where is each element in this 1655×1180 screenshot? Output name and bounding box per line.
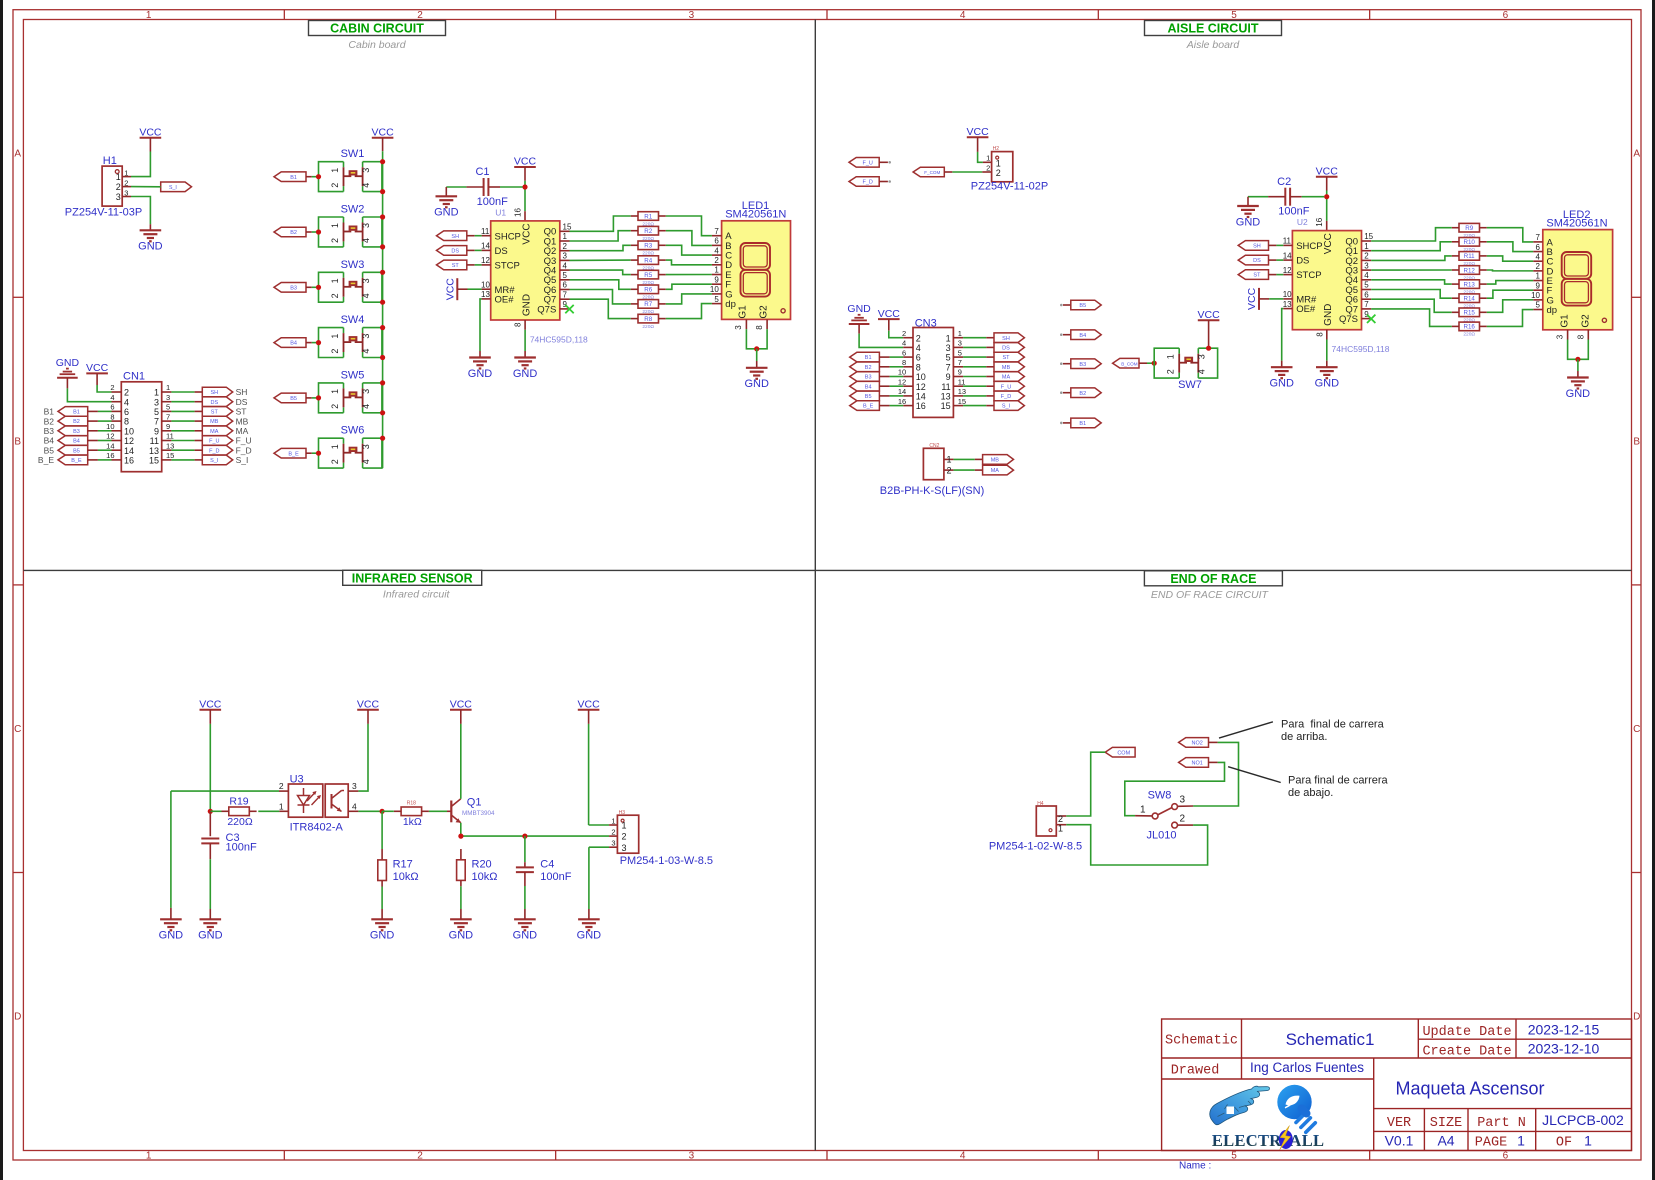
svg-text:13: 13 xyxy=(149,446,159,456)
svg-text:9: 9 xyxy=(1364,310,1369,319)
svg-text:VCC: VCC xyxy=(1246,287,1258,310)
svg-text:MB: MB xyxy=(991,458,1000,464)
svg-text:1: 1 xyxy=(330,334,340,339)
svg-text:DS: DS xyxy=(495,246,508,257)
svg-text:B5: B5 xyxy=(290,396,297,402)
svg-text:Q7S: Q7S xyxy=(1339,314,1358,325)
svg-text:Cabin board: Cabin board xyxy=(348,39,406,51)
svg-text:B3: B3 xyxy=(1079,362,1086,368)
svg-text:4: 4 xyxy=(563,261,568,270)
svg-text:11: 11 xyxy=(166,432,174,441)
svg-text:B_E: B_E xyxy=(288,451,299,457)
svg-text:4: 4 xyxy=(361,183,371,188)
svg-text:GND: GND xyxy=(1323,304,1334,326)
svg-text:ST: ST xyxy=(452,263,460,269)
svg-text:1: 1 xyxy=(146,1151,152,1162)
svg-text:U3: U3 xyxy=(290,773,304,785)
svg-text:ST: ST xyxy=(1253,273,1261,279)
svg-text:3: 3 xyxy=(1364,261,1369,270)
svg-text:G1: G1 xyxy=(1559,314,1570,328)
svg-text:VCC: VCC xyxy=(1316,165,1339,177)
svg-text:1: 1 xyxy=(946,333,951,343)
svg-text:C: C xyxy=(1633,724,1640,735)
svg-text:VCC: VCC xyxy=(199,698,222,710)
svg-text:Name :: Name : xyxy=(1179,1161,1211,1172)
svg-text:6: 6 xyxy=(1503,1151,1509,1162)
svg-text:2: 2 xyxy=(1166,369,1176,374)
svg-text:Part N: Part N xyxy=(1477,1116,1526,1131)
svg-text:3: 3 xyxy=(166,393,170,402)
svg-text:B3: B3 xyxy=(44,426,55,436)
svg-text:100nF: 100nF xyxy=(540,871,571,883)
svg-text:R10: R10 xyxy=(1464,239,1476,246)
svg-text:C1: C1 xyxy=(475,166,489,178)
svg-text:15: 15 xyxy=(941,401,951,411)
svg-text:2: 2 xyxy=(947,465,952,475)
svg-text:OE#: OE# xyxy=(495,295,515,306)
svg-text:MB: MB xyxy=(1002,365,1011,371)
svg-text:CN2: CN2 xyxy=(929,443,939,449)
svg-text:PZ254V-11-03P: PZ254V-11-03P xyxy=(65,207,142,219)
svg-text:1kΩ: 1kΩ xyxy=(403,816,422,828)
svg-text:2: 2 xyxy=(124,388,129,398)
svg-text:12: 12 xyxy=(481,256,490,265)
svg-text:END OF RACE: END OF RACE xyxy=(1170,572,1256,586)
svg-text:1: 1 xyxy=(986,154,990,163)
svg-text:OE#: OE# xyxy=(1296,304,1316,315)
svg-text:7: 7 xyxy=(1536,233,1541,242)
svg-text:1: 1 xyxy=(146,10,152,21)
svg-text:DS: DS xyxy=(1002,346,1010,352)
svg-text:VCC: VCC xyxy=(444,278,456,301)
svg-text:2: 2 xyxy=(279,781,284,791)
svg-text:DS: DS xyxy=(210,400,218,406)
svg-text:ST: ST xyxy=(236,407,247,417)
svg-text:12: 12 xyxy=(898,377,906,386)
svg-text:8: 8 xyxy=(902,358,906,367)
svg-text:3: 3 xyxy=(1180,795,1186,806)
svg-text:4: 4 xyxy=(960,10,966,21)
svg-text:GND: GND xyxy=(1315,378,1340,390)
svg-text:B1: B1 xyxy=(44,407,55,417)
svg-text:B_E: B_E xyxy=(38,455,54,465)
svg-text:D: D xyxy=(1633,1012,1640,1023)
svg-text:5: 5 xyxy=(946,353,951,363)
svg-text:PM254-1-02-W-8.5: PM254-1-02-W-8.5 xyxy=(989,841,1082,853)
svg-text:13: 13 xyxy=(958,387,966,396)
svg-text:CABIN CIRCUIT: CABIN CIRCUIT xyxy=(330,22,424,36)
svg-text:H3: H3 xyxy=(619,810,626,816)
svg-text:6: 6 xyxy=(714,237,719,246)
svg-text:R20: R20 xyxy=(472,859,492,871)
svg-text:ST: ST xyxy=(1002,355,1010,361)
svg-text:SW1: SW1 xyxy=(341,148,365,160)
svg-text:INFRARED SENSOR: INFRARED SENSOR xyxy=(352,571,473,585)
svg-text:8: 8 xyxy=(1577,334,1586,339)
svg-text:B1: B1 xyxy=(290,175,297,181)
svg-text:14: 14 xyxy=(124,446,134,456)
svg-text:16: 16 xyxy=(898,397,906,406)
svg-text:NO1: NO1 xyxy=(1191,761,1202,767)
svg-text:GND: GND xyxy=(138,241,163,253)
svg-text:H1: H1 xyxy=(103,155,117,167)
svg-text:2023-12-10: 2023-12-10 xyxy=(1528,1041,1600,1057)
svg-text:R12: R12 xyxy=(1464,267,1476,274)
svg-text:6: 6 xyxy=(563,281,568,290)
svg-text:U2: U2 xyxy=(1297,217,1308,227)
svg-text:B5: B5 xyxy=(1079,303,1086,309)
svg-text:B4: B4 xyxy=(290,341,297,347)
svg-text:B5: B5 xyxy=(44,445,55,455)
svg-text:JLCPCB-002: JLCPCB-002 xyxy=(1542,1112,1624,1128)
svg-text:SHCP: SHCP xyxy=(1296,241,1322,252)
svg-text:1: 1 xyxy=(330,444,340,449)
svg-text:3: 3 xyxy=(124,188,128,197)
svg-text:SIZE: SIZE xyxy=(1430,1116,1462,1131)
svg-text:15: 15 xyxy=(958,397,966,406)
svg-text:A: A xyxy=(1633,149,1640,160)
svg-text:MB: MB xyxy=(210,419,219,425)
svg-text:1: 1 xyxy=(1058,824,1063,834)
svg-text:4: 4 xyxy=(1364,271,1369,280)
svg-text:1: 1 xyxy=(611,816,615,825)
svg-text:13: 13 xyxy=(941,392,951,402)
svg-text:10kΩ: 10kΩ xyxy=(393,871,419,883)
svg-text:1: 1 xyxy=(714,266,719,275)
svg-text:8: 8 xyxy=(110,412,114,421)
svg-text:SW6: SW6 xyxy=(341,425,365,437)
svg-text:7: 7 xyxy=(563,290,568,299)
svg-text:VCC: VCC xyxy=(139,127,162,139)
svg-text:B4: B4 xyxy=(73,439,80,445)
svg-text:AISLE CIRCUIT: AISLE CIRCUIT xyxy=(1168,22,1259,36)
svg-text:GND: GND xyxy=(1269,378,1294,390)
svg-text:9: 9 xyxy=(958,368,962,377)
svg-text:11: 11 xyxy=(958,377,966,386)
svg-text:14: 14 xyxy=(916,392,926,402)
svg-text:2: 2 xyxy=(330,183,340,188)
svg-text:2: 2 xyxy=(1536,262,1541,271)
svg-text:1: 1 xyxy=(1536,272,1541,281)
svg-text:220Ω: 220Ω xyxy=(1463,332,1475,338)
svg-text:B2: B2 xyxy=(44,416,55,426)
svg-text:13: 13 xyxy=(166,441,174,450)
svg-text:2: 2 xyxy=(330,293,340,298)
svg-text:12: 12 xyxy=(916,382,926,392)
svg-text:12: 12 xyxy=(124,436,134,446)
svg-text:3: 3 xyxy=(611,839,615,848)
svg-text:S_I: S_I xyxy=(1002,404,1011,410)
svg-text:3: 3 xyxy=(689,10,695,21)
svg-text:DS: DS xyxy=(236,397,248,407)
svg-text:9: 9 xyxy=(1536,281,1541,290)
svg-text:2: 2 xyxy=(330,349,340,354)
svg-text:7: 7 xyxy=(958,358,962,367)
svg-text:3: 3 xyxy=(1197,354,1207,359)
svg-text:2: 2 xyxy=(1180,814,1186,825)
svg-text:F_D: F_D xyxy=(236,445,252,455)
svg-text:JL010: JL010 xyxy=(1147,830,1177,842)
svg-text:B_E: B_E xyxy=(71,458,82,464)
svg-text:R19: R19 xyxy=(229,796,248,808)
svg-text:12: 12 xyxy=(106,432,114,441)
svg-text:15: 15 xyxy=(563,223,572,232)
svg-text:VCC: VCC xyxy=(967,126,990,138)
svg-text:G1: G1 xyxy=(738,305,749,319)
svg-text:4: 4 xyxy=(1197,369,1207,374)
svg-text:3: 3 xyxy=(361,334,371,339)
svg-text:1: 1 xyxy=(330,168,340,173)
svg-text:3: 3 xyxy=(689,1151,695,1162)
svg-text:VCC: VCC xyxy=(450,698,473,710)
svg-text:7: 7 xyxy=(154,417,159,427)
svg-text:10: 10 xyxy=(1531,291,1540,300)
svg-text:Update Date: Update Date xyxy=(1422,1025,1511,1040)
svg-text:GND: GND xyxy=(56,357,80,369)
svg-text:MMBT3904: MMBT3904 xyxy=(462,810,495,817)
svg-text:1: 1 xyxy=(1517,1133,1525,1149)
svg-text:D: D xyxy=(14,1012,21,1023)
svg-text:R15: R15 xyxy=(1464,310,1476,317)
svg-text:9: 9 xyxy=(563,300,568,309)
svg-text:3: 3 xyxy=(361,444,371,449)
svg-text:3: 3 xyxy=(154,397,159,407)
svg-text:G2: G2 xyxy=(1580,314,1591,328)
svg-text:3: 3 xyxy=(734,325,743,330)
svg-text:14: 14 xyxy=(481,242,490,251)
svg-text:2: 2 xyxy=(110,383,114,392)
svg-text:SW4: SW4 xyxy=(341,314,365,326)
svg-text:B_E: B_E xyxy=(863,404,874,410)
svg-text:F_D: F_D xyxy=(1001,394,1011,400)
svg-text:DS: DS xyxy=(1253,258,1261,264)
svg-text:7: 7 xyxy=(166,412,170,421)
svg-text:4: 4 xyxy=(714,246,719,255)
svg-text:B3: B3 xyxy=(290,285,297,291)
svg-text:COM: COM xyxy=(1117,750,1130,756)
svg-text:4: 4 xyxy=(361,349,371,354)
svg-text:VCC: VCC xyxy=(372,127,395,139)
svg-text:R8: R8 xyxy=(644,316,652,323)
svg-text:GND: GND xyxy=(577,930,602,942)
svg-text:B3: B3 xyxy=(73,429,80,435)
svg-text:R3: R3 xyxy=(644,243,652,250)
svg-text:11: 11 xyxy=(481,227,490,236)
svg-text:4: 4 xyxy=(361,293,371,298)
svg-text:9: 9 xyxy=(946,372,951,382)
svg-text:STCP: STCP xyxy=(1296,270,1321,281)
svg-text:1: 1 xyxy=(1584,1133,1592,1149)
svg-text:B_COM: B_COM xyxy=(1121,361,1138,366)
svg-text:2: 2 xyxy=(330,404,340,409)
svg-text:8: 8 xyxy=(1315,332,1324,337)
svg-text:4: 4 xyxy=(361,238,371,243)
svg-text:DS: DS xyxy=(1296,256,1309,267)
svg-text:PZ254V-11-02P: PZ254V-11-02P xyxy=(971,181,1048,193)
svg-text:3: 3 xyxy=(352,781,357,791)
svg-text:2: 2 xyxy=(986,163,990,172)
svg-text:3: 3 xyxy=(361,223,371,228)
svg-text:1: 1 xyxy=(996,158,1001,168)
svg-text:STCP: STCP xyxy=(495,261,520,272)
svg-text:1: 1 xyxy=(563,232,568,241)
svg-text:B2: B2 xyxy=(290,230,297,236)
svg-text:GND: GND xyxy=(434,207,459,219)
svg-text:1: 1 xyxy=(330,223,340,228)
svg-text:GND: GND xyxy=(370,930,395,942)
svg-text:SW2: SW2 xyxy=(341,204,365,216)
svg-text:GND: GND xyxy=(1566,388,1591,400)
svg-text:GND: GND xyxy=(1236,216,1261,228)
svg-text:Para final de carrera: Para final de carrera xyxy=(1281,719,1385,731)
svg-text:2: 2 xyxy=(124,178,128,187)
svg-text:5: 5 xyxy=(958,348,962,357)
svg-text:3: 3 xyxy=(116,192,121,202)
svg-text:9: 9 xyxy=(166,422,170,431)
svg-text:10: 10 xyxy=(1283,290,1292,299)
svg-text:R16: R16 xyxy=(1464,324,1476,331)
svg-text:GND: GND xyxy=(468,368,493,380)
svg-text:1: 1 xyxy=(279,801,284,811)
svg-text:OF: OF xyxy=(1556,1136,1572,1151)
svg-text:11: 11 xyxy=(941,382,950,392)
svg-text:4: 4 xyxy=(110,393,114,402)
svg-text:CN1: CN1 xyxy=(123,370,145,382)
svg-text:V0.1: V0.1 xyxy=(1385,1133,1414,1149)
svg-text:1: 1 xyxy=(166,383,170,392)
svg-text:100nF: 100nF xyxy=(226,842,257,854)
svg-text:2: 2 xyxy=(417,10,423,21)
svg-text:8: 8 xyxy=(124,417,129,427)
svg-text:5: 5 xyxy=(1536,301,1541,310)
svg-text:F_COM: F_COM xyxy=(924,170,940,175)
svg-text:4: 4 xyxy=(124,397,129,407)
svg-text:R6: R6 xyxy=(644,287,652,294)
svg-text:R2: R2 xyxy=(644,228,652,235)
svg-text:2: 2 xyxy=(1058,814,1063,824)
svg-text:GND: GND xyxy=(744,378,769,390)
svg-text:74HC595D,118: 74HC595D,118 xyxy=(530,335,588,345)
svg-text:dp: dp xyxy=(725,299,736,310)
svg-text:GND: GND xyxy=(159,930,184,942)
svg-text:6: 6 xyxy=(1364,290,1369,299)
svg-text:SW7: SW7 xyxy=(1178,379,1202,391)
svg-text:B1: B1 xyxy=(73,410,80,416)
svg-text:GND: GND xyxy=(522,294,533,316)
svg-text:Infrared circuit: Infrared circuit xyxy=(383,589,451,601)
svg-text:7: 7 xyxy=(946,362,951,372)
svg-text:220Ω: 220Ω xyxy=(642,324,654,330)
svg-text:Ing Carlos Fuentes: Ing Carlos Fuentes xyxy=(1250,1060,1364,1075)
svg-text:1: 1 xyxy=(1166,354,1176,359)
svg-text:B3: B3 xyxy=(865,375,872,381)
svg-text:2: 2 xyxy=(563,242,568,251)
svg-text:S_I: S_I xyxy=(210,458,219,464)
svg-text:9: 9 xyxy=(154,426,159,436)
svg-text:F_D: F_D xyxy=(863,180,873,186)
svg-text:GND: GND xyxy=(847,303,871,315)
svg-text:1: 1 xyxy=(1140,805,1146,816)
svg-text:11: 11 xyxy=(1283,237,1292,246)
svg-text:SW8: SW8 xyxy=(1148,790,1172,802)
svg-text:G2: G2 xyxy=(759,305,770,319)
svg-text:SW5: SW5 xyxy=(341,369,365,381)
svg-text:VER: VER xyxy=(1387,1116,1411,1131)
svg-text:2: 2 xyxy=(330,459,340,464)
svg-text:6: 6 xyxy=(110,403,114,412)
svg-text:MA: MA xyxy=(236,426,249,436)
svg-text:B2: B2 xyxy=(1079,391,1086,397)
svg-text:14: 14 xyxy=(898,387,906,396)
svg-text:4: 4 xyxy=(902,339,906,348)
svg-text:VCC: VCC xyxy=(878,308,901,320)
svg-text:4: 4 xyxy=(1536,252,1541,261)
svg-text:VCC: VCC xyxy=(1198,309,1221,321)
svg-text:MA: MA xyxy=(210,429,219,435)
svg-text:R14: R14 xyxy=(1464,296,1476,303)
svg-text:SH: SH xyxy=(1253,244,1261,250)
svg-text:Schematic1: Schematic1 xyxy=(1286,1030,1375,1049)
svg-text:5: 5 xyxy=(154,407,159,417)
svg-text:SM420561N: SM420561N xyxy=(1546,217,1607,229)
svg-text:Maqueta Ascensor: Maqueta Ascensor xyxy=(1395,1079,1544,1099)
svg-text:16: 16 xyxy=(514,208,523,217)
svg-text:PAGE: PAGE xyxy=(1475,1136,1507,1151)
svg-text:B2: B2 xyxy=(73,419,80,425)
svg-text:R17: R17 xyxy=(393,859,413,871)
svg-text:C: C xyxy=(14,724,21,735)
svg-text:10: 10 xyxy=(124,426,134,436)
svg-text:B1: B1 xyxy=(865,355,872,361)
svg-text:B4: B4 xyxy=(44,436,55,446)
svg-text:14: 14 xyxy=(106,441,114,450)
svg-text:2: 2 xyxy=(330,238,340,243)
svg-text:dp: dp xyxy=(1547,305,1558,316)
svg-text:GND: GND xyxy=(449,930,474,942)
svg-text:B1: B1 xyxy=(1079,421,1086,427)
svg-text:R5: R5 xyxy=(644,272,652,279)
svg-text:2: 2 xyxy=(1364,252,1369,261)
svg-text:B: B xyxy=(1633,436,1640,447)
svg-text:GND: GND xyxy=(513,368,538,380)
svg-text:END OF RACE CIRCUIT: END OF RACE CIRCUIT xyxy=(1151,589,1270,601)
svg-text:C2: C2 xyxy=(1277,176,1291,188)
svg-text:VCC: VCC xyxy=(1323,233,1334,254)
svg-text:10: 10 xyxy=(916,372,926,382)
svg-text:NO2: NO2 xyxy=(1191,741,1202,747)
svg-text:F_U: F_U xyxy=(863,160,873,166)
svg-text:SM420561N: SM420561N xyxy=(725,209,786,221)
svg-text:74HC595D,118: 74HC595D,118 xyxy=(1332,344,1390,354)
svg-text:R18: R18 xyxy=(407,801,416,807)
svg-text:2: 2 xyxy=(622,832,627,842)
svg-text:B4: B4 xyxy=(865,384,872,390)
svg-text:R9: R9 xyxy=(1465,225,1473,232)
svg-text:ALL: ALL xyxy=(1290,1131,1325,1150)
svg-text:R11: R11 xyxy=(1464,253,1475,260)
svg-text:de abajo.: de abajo. xyxy=(1288,787,1333,799)
svg-text:10: 10 xyxy=(106,422,114,431)
svg-text:SHCP: SHCP xyxy=(495,231,521,242)
svg-text:220Ω: 220Ω xyxy=(227,816,253,828)
svg-text:4: 4 xyxy=(361,459,371,464)
svg-text:ITR8402-A: ITR8402-A xyxy=(290,822,344,834)
svg-text:1: 1 xyxy=(330,278,340,283)
svg-text:8: 8 xyxy=(514,322,523,327)
svg-text:6: 6 xyxy=(124,407,129,417)
svg-text:15: 15 xyxy=(1364,232,1373,241)
svg-text:B5: B5 xyxy=(73,448,80,454)
